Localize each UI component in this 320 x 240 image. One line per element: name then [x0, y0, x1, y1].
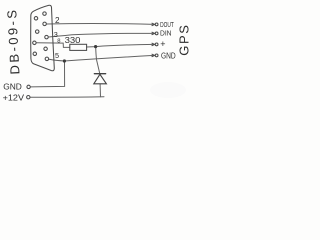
svg-text:330: 330 — [65, 36, 81, 45]
svg-text:DOUT: DOUT — [160, 20, 174, 29]
svg-text:+: + — [160, 39, 165, 49]
svg-text:5: 5 — [55, 51, 59, 60]
svg-text:GND: GND — [3, 82, 22, 92]
svg-text:DIN: DIN — [160, 29, 172, 38]
svg-text:2: 2 — [55, 16, 60, 25]
svg-text:GND: GND — [161, 52, 176, 61]
svg-text:DB-09-S: DB-09-S — [4, 9, 22, 75]
svg-text:GPS: GPS — [176, 23, 191, 55]
svg-text:+12V: +12V — [3, 92, 25, 102]
